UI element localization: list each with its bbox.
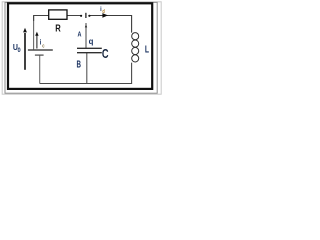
svg-text:d: d [102, 8, 105, 14]
svg-text:R: R [55, 23, 61, 34]
switch contact dot left [80, 15, 82, 17]
svg-text:L: L [145, 43, 150, 55]
battery short plate [35, 54, 44, 56]
wire top right segment [89, 16, 131, 33]
wire capacitor branch lower [86, 53, 88, 84]
inductor L coil loop 2 [132, 40, 139, 47]
svg-text:c: c [42, 43, 44, 50]
wire bottom rail [40, 63, 132, 84]
svg-text:q: q [89, 37, 94, 46]
resistor R [49, 10, 67, 19]
node arrow on capacitor branch [85, 25, 87, 28]
switch contact dot right [88, 15, 90, 17]
wire battery drop [39, 55, 41, 83]
inductor L coil loop 3 [132, 47, 139, 54]
battery long plate [28, 49, 53, 51]
svg-text:A: A [78, 31, 82, 39]
svg-text:B: B [77, 58, 81, 70]
current arrow i_c [36, 35, 38, 48]
inductor L coil loop 1 [132, 33, 139, 40]
wire battery riser [33, 16, 35, 50]
svg-text:C: C [102, 48, 109, 62]
capacitor C top plate [77, 47, 102, 49]
current arrow i_d on top wire [102, 13, 108, 18]
capacitor C bottom plate [77, 52, 102, 54]
svg-text:i: i [100, 6, 102, 14]
wire capacitor branch upper [85, 23, 87, 48]
inductor L coil loop 4 [132, 55, 139, 62]
svg-text:i: i [40, 39, 42, 47]
outer light gray frame [2, 2, 161, 94]
switch blade bar [85, 13, 87, 18]
circuit border box [8, 3, 152, 89]
inner gray frame [5, 2, 157, 93]
voltage arrow U0 [24, 33, 26, 70]
wire top left horizontal [34, 16, 82, 22]
